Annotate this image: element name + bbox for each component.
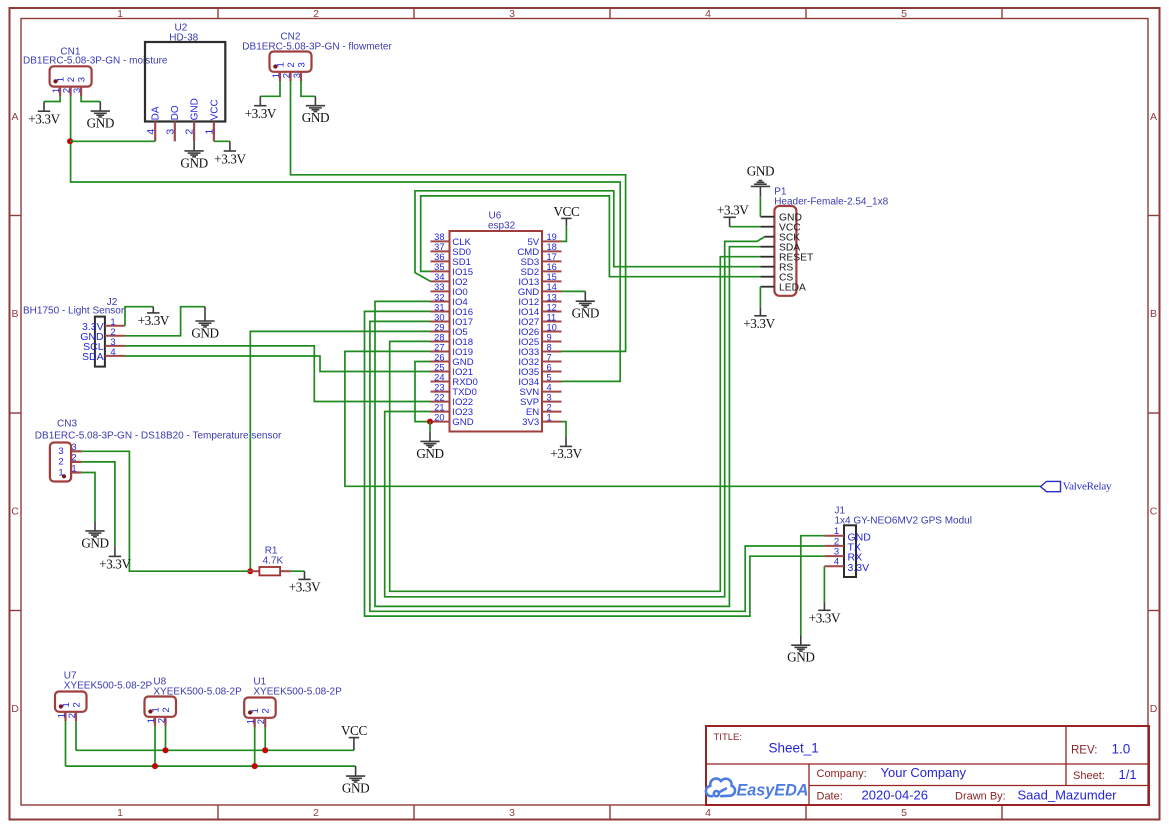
- CN2 pins with rotated pin numbers: [271, 62, 308, 81]
- svg-text:1: 1: [246, 719, 257, 724]
- CN1 reference and part name labels: [23, 47, 168, 67]
- svg-text:CN3: CN3: [57, 419, 77, 430]
- svg-text:2: 2: [71, 702, 82, 707]
- svg-text:1: 1: [71, 463, 76, 474]
- svg-text:4: 4: [547, 382, 552, 392]
- svg-text:BH1750 - Light Sensor: BH1750 - Light Sensor: [23, 306, 125, 317]
- wire U6 IO16 to J1 RX: [365, 311, 825, 616]
- svg-text:35: 35: [434, 262, 444, 272]
- junction U8 pin2 on VCC rail: [163, 747, 169, 753]
- svg-text:+3.3V: +3.3V: [743, 316, 775, 331]
- svg-text:DB1ERC-5.08-3P-GN - flowmeter: DB1ERC-5.08-3P-GN - flowmeter: [242, 41, 392, 52]
- svg-text:4: 4: [145, 129, 157, 135]
- svg-text:1: 1: [250, 708, 261, 713]
- svg-text:2: 2: [161, 707, 172, 712]
- svg-text:VCC: VCC: [341, 723, 368, 738]
- svg-text:+3.3V: +3.3V: [214, 151, 246, 166]
- svg-text:30: 30: [434, 312, 444, 322]
- svg-text:EasyEDA: EasyEDA: [737, 781, 809, 799]
- svg-text:C: C: [1150, 506, 1158, 518]
- U7 reference and part name labels: [64, 670, 153, 691]
- resistor R1: [248, 545, 291, 575]
- svg-text:+3.3V: +3.3V: [28, 112, 60, 127]
- svg-text:B: B: [1150, 308, 1157, 320]
- svg-text:GND: GND: [787, 650, 814, 665]
- svg-text:+3.3V: +3.3V: [99, 557, 131, 572]
- svg-text:1: 1: [61, 702, 72, 707]
- connector CN1 body: [50, 66, 92, 86]
- power +3.3V at CN1: [28, 102, 60, 127]
- ground at CN3: [81, 522, 108, 551]
- power VCC at U6 pin19: [553, 204, 580, 226]
- title block: [706, 726, 1149, 805]
- wire GND rail: [66, 765, 356, 767]
- wire U6 IO22 to J2 SCL: [125, 346, 431, 402]
- CN2 reference and part name labels: [242, 32, 392, 53]
- svg-text:4: 4: [834, 557, 839, 568]
- svg-text:3V3: 3V3: [522, 417, 539, 428]
- svg-text:GND: GND: [416, 446, 443, 461]
- J1 reference and name labels: [835, 506, 972, 527]
- ground at J1: [787, 636, 814, 665]
- junction U6 pin20 GND node: [427, 419, 433, 425]
- svg-text:D: D: [1150, 703, 1158, 715]
- svg-text:2: 2: [313, 807, 319, 819]
- wire net ValveRelay: U6 IO19 to flag: [345, 351, 1041, 486]
- wire CN3 pin3 to R1 node: [82, 451, 248, 571]
- svg-text:3.3V: 3.3V: [848, 562, 870, 574]
- J2 pins 1-4 with names 3.3V GND SCL SDA: [80, 317, 125, 363]
- svg-text:2: 2: [547, 402, 552, 412]
- svg-text:REV:: REV:: [1071, 745, 1097, 757]
- CN3 reference and name labels: [35, 419, 282, 442]
- U1 pins with rotated pin numbers: [246, 708, 272, 727]
- wire P1 GND pin up: [759, 196, 761, 216]
- U8 reference and part name labels: [153, 677, 242, 698]
- net flag ValveRelay: [1041, 480, 1113, 492]
- connector CN3 temperature sensor body: [50, 443, 71, 482]
- svg-text:2: 2: [286, 62, 297, 67]
- power VCC at rail: [341, 723, 368, 750]
- svg-text:1/1: 1/1: [1119, 767, 1137, 782]
- svg-text:12: 12: [547, 302, 557, 312]
- wire J1 GND to ground: [801, 536, 825, 636]
- power +3.3V at J1: [809, 603, 841, 626]
- svg-text:32: 32: [434, 292, 444, 302]
- wire U6 IO17 to J1 TX: [370, 321, 825, 611]
- svg-text:DA: DA: [151, 106, 162, 120]
- svg-text:A: A: [11, 111, 18, 123]
- wire net flowmeter: CN2 pin2 to U6 IO33: [291, 81, 626, 352]
- wire U6 pin26 GND to pin20: [415, 362, 431, 422]
- svg-text:34: 34: [434, 272, 444, 282]
- CN3 pins 3 2 1 with pin numbers: [58, 442, 81, 478]
- svg-text:1x4 GY-NEO6MV2 GPS Modul: 1x4 GY-NEO6MV2 GPS Modul: [835, 516, 972, 527]
- svg-text:4.7K: 4.7K: [263, 556, 284, 567]
- svg-text:4: 4: [705, 8, 711, 20]
- svg-text:9: 9: [547, 332, 552, 342]
- ground at U6 pin20: [416, 431, 443, 461]
- svg-text:31: 31: [434, 302, 444, 312]
- svg-text:GND: GND: [191, 325, 218, 340]
- svg-text:33: 33: [434, 282, 444, 292]
- svg-text:1: 1: [56, 713, 67, 718]
- svg-text:VCC: VCC: [553, 204, 580, 219]
- wire U7 pin1 to GND rail: [65, 721, 67, 766]
- svg-text:1: 1: [146, 718, 157, 723]
- connector U8 body: [145, 697, 177, 717]
- ground at J2: [191, 307, 218, 341]
- wire U1 pin2 to VCC rail: [264, 727, 266, 750]
- svg-text:6: 6: [547, 362, 552, 372]
- connector J2 BH1750 light sensor body: [95, 317, 105, 367]
- svg-text:GND: GND: [190, 98, 201, 120]
- svg-text:36: 36: [434, 252, 444, 262]
- svg-text:2020-04-26: 2020-04-26: [862, 788, 929, 803]
- svg-text:13: 13: [547, 292, 557, 302]
- sensor module U2 HD-38 body: [145, 23, 225, 122]
- svg-text:GND: GND: [747, 164, 774, 179]
- ground at U2: [180, 141, 207, 170]
- power +3.3V at P1 LEDA: [743, 308, 775, 332]
- svg-text:Sheet_1: Sheet_1: [769, 740, 819, 755]
- connector U7 body: [55, 692, 87, 712]
- wire CN3 pin2 to +3.3V: [82, 462, 115, 547]
- junction U1 pin2 on VCC rail: [262, 747, 268, 753]
- svg-text:Saad_Mazumder: Saad_Mazumder: [1018, 788, 1118, 803]
- svg-text:DB1ERC-5.08-3P-GN - DS18B20 -: DB1ERC-5.08-3P-GN - DS18B20 - Temperatur…: [35, 430, 282, 441]
- svg-text:GND: GND: [452, 417, 473, 428]
- svg-text:B: B: [11, 308, 18, 320]
- svg-text:C: C: [11, 506, 19, 518]
- svg-text:1: 1: [547, 412, 552, 422]
- svg-text:3: 3: [72, 88, 83, 93]
- svg-text:GND: GND: [180, 155, 207, 170]
- svg-text:XYEEK500-5.08-2P: XYEEK500-5.08-2P: [253, 686, 342, 697]
- U2 pins DA DO GND VCC with pin numbers 4 3 2 1: [145, 98, 221, 141]
- wire U8 pin1 to GND rail: [154, 726, 156, 766]
- svg-text:3: 3: [292, 73, 303, 78]
- svg-text:27: 27: [434, 342, 444, 352]
- svg-text:+3.3V: +3.3V: [138, 313, 170, 328]
- svg-text:D: D: [11, 703, 19, 715]
- svg-text:2: 2: [71, 453, 76, 464]
- wire CN1 pin3 to GND: [81, 96, 100, 102]
- junction U1 pin1 on GND rail: [252, 763, 258, 769]
- svg-text:1: 1: [117, 8, 123, 20]
- wire U6 IO18 to P1 RESET: [390, 257, 761, 592]
- svg-text:Your Company: Your Company: [881, 765, 967, 780]
- svg-text:24: 24: [434, 372, 444, 382]
- svg-text:1: 1: [271, 73, 282, 78]
- U1 reference and part name labels: [253, 677, 342, 698]
- svg-text:37: 37: [434, 242, 444, 252]
- wire CN2 pin1 to +3.3V: [260, 81, 280, 97]
- svg-text:Drawn By:: Drawn By:: [955, 790, 1006, 802]
- svg-text:23: 23: [434, 382, 444, 392]
- svg-text:XYEEK500-5.08-2P: XYEEK500-5.08-2P: [153, 686, 242, 697]
- svg-text:GND: GND: [342, 781, 369, 796]
- svg-text:1: 1: [51, 88, 62, 93]
- svg-text:Sheet:: Sheet:: [1073, 770, 1105, 782]
- svg-text:DB1ERC-5.08-3P-GN - moisture: DB1ERC-5.08-3P-GN - moisture: [23, 56, 168, 67]
- svg-text:3: 3: [296, 62, 307, 67]
- svg-text:21: 21: [434, 402, 444, 412]
- wire J2 GND to ground: [125, 307, 205, 336]
- connector J1 GPS module body: [844, 525, 856, 577]
- wire CN1 pin1 to +3.3V: [44, 96, 60, 102]
- svg-text:2: 2: [281, 73, 292, 78]
- svg-text:2: 2: [256, 719, 267, 724]
- svg-text:22: 22: [434, 392, 444, 402]
- svg-text:ValveRelay: ValveRelay: [1063, 480, 1112, 492]
- svg-text:2: 2: [184, 129, 196, 135]
- svg-text:3: 3: [547, 392, 552, 402]
- wire J1 3.3V to +3.3V: [823, 566, 825, 602]
- svg-text:2: 2: [261, 708, 272, 713]
- svg-text:28: 28: [434, 332, 444, 342]
- svg-text:+3.3V: +3.3V: [809, 611, 841, 626]
- svg-text:Company:: Company:: [817, 768, 867, 780]
- svg-text:3: 3: [71, 442, 76, 453]
- svg-text:18: 18: [547, 242, 557, 252]
- junction CN1 pin2 / U2 DA: [67, 138, 73, 144]
- wire U6 IO23 to P1 SCK: [385, 237, 765, 597]
- power +3.3V at R1: [289, 571, 321, 595]
- svg-text:+3.3V: +3.3V: [717, 202, 749, 217]
- wire J2 3.3V to +3.3V: [125, 307, 153, 326]
- svg-text:5: 5: [901, 807, 907, 819]
- wire CN3 pin1 to GND: [82, 473, 95, 522]
- connector U1 body: [244, 698, 276, 718]
- svg-text:SDA: SDA: [82, 351, 104, 363]
- ground at U6 pin14: [572, 291, 599, 320]
- svg-text:HD-38: HD-38: [169, 32, 198, 43]
- svg-text:A: A: [1150, 111, 1157, 123]
- svg-text:8: 8: [547, 342, 552, 352]
- svg-text:2: 2: [67, 713, 78, 718]
- svg-text:GND: GND: [572, 306, 599, 321]
- wire U6 pin14 GND: [562, 290, 586, 292]
- svg-text:1: 1: [58, 467, 63, 478]
- svg-text:3: 3: [76, 77, 87, 82]
- svg-text:26: 26: [434, 352, 444, 362]
- ground at P1: [747, 164, 774, 197]
- svg-text:29: 29: [434, 322, 444, 332]
- ground at CN1: [87, 102, 114, 131]
- wire P1 LEDA to +3.3V: [759, 287, 761, 308]
- svg-text:10: 10: [547, 322, 557, 332]
- ground at rail: [342, 766, 369, 795]
- power +3.3V at CN2: [245, 96, 277, 121]
- wire U6 IO5 to R1 node: [250, 331, 430, 571]
- CN1 pins with rotated pin numbers: [51, 77, 88, 96]
- P1 pins GND VCC SCK SDA RESET RS CS LEDA: [760, 212, 814, 293]
- wire U2 DA to CN1 pin2 junction: [70, 140, 155, 142]
- P1 reference and name labels: [774, 186, 888, 207]
- svg-text:4: 4: [110, 347, 115, 358]
- svg-text:1: 1: [204, 129, 216, 135]
- svg-text:20: 20: [434, 412, 444, 422]
- wire U8 pin2 to VCC rail: [165, 726, 167, 750]
- wire U6 IO15 to P1 CS: [421, 196, 761, 277]
- power +3.3V at U6 pin1: [550, 436, 582, 460]
- svg-text:7: 7: [547, 352, 552, 362]
- svg-text:38: 38: [434, 232, 444, 242]
- svg-text:2: 2: [313, 8, 319, 20]
- EasyEDA logo: [706, 779, 809, 800]
- svg-text:esp32: esp32: [488, 220, 516, 231]
- wire R1 to +3.3V: [291, 570, 304, 572]
- svg-text:+3.3V: +3.3V: [245, 106, 277, 121]
- junction U8 pin1 on GND rail: [152, 763, 158, 769]
- U8 pins with rotated pin numbers: [146, 707, 172, 726]
- svg-text:3: 3: [58, 446, 63, 457]
- svg-text:1: 1: [275, 62, 286, 67]
- svg-text:2: 2: [66, 77, 77, 82]
- svg-text:Header-Female-2.54_1x8: Header-Female-2.54_1x8: [774, 197, 888, 208]
- microcontroller U6 esp32 body: [450, 211, 543, 432]
- svg-text:3: 3: [164, 129, 176, 135]
- wire U6 3V3 to +3.3V: [562, 422, 567, 437]
- svg-text:3: 3: [509, 8, 515, 20]
- wire U2 VCC to +3.3V: [214, 140, 230, 142]
- wire U6 pin20 to ground stem: [429, 422, 431, 432]
- wire CN2 pin3 to GND: [301, 81, 315, 97]
- svg-text:2: 2: [58, 457, 63, 468]
- power +3.3V at CN3: [99, 546, 131, 571]
- power +3.3V at J2: [138, 307, 170, 329]
- wire U1 pin1 to GND rail: [254, 727, 256, 766]
- wire U6 IO4 to P1 SDA: [375, 247, 760, 607]
- wire U6 IO2 to P1 RS: [415, 191, 760, 282]
- svg-text:25: 25: [434, 362, 444, 372]
- wire VCC to U6 5V: [562, 226, 567, 241]
- svg-text:LEDA: LEDA: [779, 282, 806, 293]
- svg-text:11: 11: [547, 312, 557, 322]
- svg-text:19: 19: [547, 232, 557, 242]
- wire P1 VCC to +3.3V: [730, 226, 761, 228]
- svg-text:GND: GND: [87, 116, 114, 131]
- power +3.3V at U2: [214, 141, 246, 166]
- svg-text:15: 15: [547, 272, 557, 282]
- svg-text:2: 2: [156, 718, 167, 723]
- svg-text:3: 3: [509, 807, 515, 819]
- svg-text:1.0: 1.0: [1112, 742, 1131, 757]
- J1 pins 1-4 with names GND TX RX 3.3V: [824, 526, 871, 574]
- svg-text:TITLE:: TITLE:: [714, 732, 743, 743]
- svg-text:Date:: Date:: [817, 790, 843, 802]
- svg-text:14: 14: [547, 282, 557, 292]
- svg-text:4: 4: [705, 807, 711, 819]
- svg-text:DO: DO: [170, 105, 181, 120]
- svg-text:GND: GND: [302, 110, 329, 125]
- connector P1 Header-Female-2.54_1x8 body: [774, 206, 796, 296]
- svg-text:1: 1: [55, 77, 66, 82]
- svg-text:5: 5: [901, 8, 907, 20]
- svg-text:17: 17: [547, 252, 557, 262]
- svg-text:+3.3V: +3.3V: [550, 446, 582, 461]
- svg-text:2: 2: [61, 88, 72, 93]
- U6 left pins 38..20 with numbers and names: [431, 232, 478, 428]
- connector CN2 body: [270, 52, 312, 72]
- svg-text:VCC: VCC: [209, 99, 220, 120]
- svg-text:+3.3V: +3.3V: [289, 580, 321, 595]
- wire VCC rail: [76, 749, 354, 751]
- wire U6 IO21 to J2 SDA: [125, 356, 431, 372]
- svg-text:1: 1: [117, 807, 123, 819]
- U6 right pins 19..1 with numbers and names: [517, 232, 561, 428]
- ground at CN2: [302, 96, 329, 125]
- U7 pins with rotated pin numbers: [56, 702, 82, 721]
- power +3.3V at P1 VCC: [717, 202, 749, 226]
- wire U7 pin2 to VCC rail: [75, 721, 77, 750]
- R1 value 4.7K: [263, 556, 284, 567]
- junction R1 / CN3 / IO5 node: [247, 568, 253, 574]
- wire net moisture-DA: CN1 pin2 to U6 IO34: [71, 96, 621, 382]
- svg-text:GND: GND: [81, 535, 108, 550]
- svg-text:1: 1: [150, 707, 161, 712]
- svg-text:16: 16: [547, 262, 557, 272]
- svg-text:XYEEK500-5.08-2P: XYEEK500-5.08-2P: [64, 680, 153, 691]
- svg-text:5: 5: [547, 372, 552, 382]
- J2 reference and name labels: [23, 297, 125, 317]
